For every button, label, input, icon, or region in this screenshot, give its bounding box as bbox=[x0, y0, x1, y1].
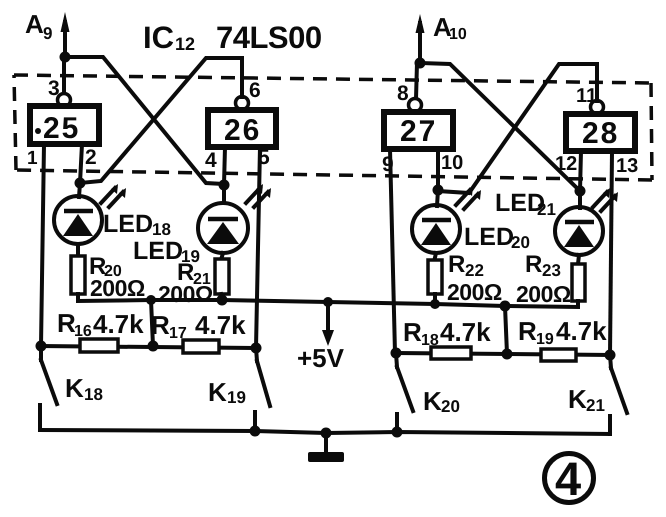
wire cross-couple gate25 out to gate26 input bbox=[65, 57, 224, 184]
node A10 label bbox=[433, 12, 467, 43]
svg-text:4.7k: 4.7k bbox=[93, 309, 144, 339]
LED21 light rays bbox=[593, 188, 618, 211]
K19 label bbox=[208, 377, 246, 407]
wire ground bus bbox=[40, 430, 610, 434]
svg-text:2: 2 bbox=[85, 146, 97, 169]
R18 label bbox=[403, 317, 491, 349]
junction dot K20/ground bus bbox=[392, 427, 403, 438]
wire A10 to gate27 output bbox=[416, 63, 417, 99]
wire cross-couple gate26 out to gate25 input bbox=[80, 58, 242, 183]
LED18 bbox=[54, 183, 102, 257]
R19 label bbox=[518, 316, 607, 348]
wire pin5 gate26 down to K19 node bbox=[256, 147, 260, 348]
junction dot K19/ground bus bbox=[250, 426, 261, 437]
svg-text:200Ω: 200Ω bbox=[90, 275, 145, 301]
junction dot bus/R21 bbox=[217, 295, 228, 306]
resistor R19 4.7k bbox=[541, 349, 576, 361]
junction dot bus/R22 bbox=[430, 299, 440, 309]
svg-text:10: 10 bbox=[441, 152, 463, 174]
junction dot A9 bbox=[60, 52, 71, 63]
wire bus to R18/R19 row bbox=[505, 306, 507, 354]
svg-text:13: 13 bbox=[616, 155, 638, 177]
svg-text:25: 25 bbox=[43, 112, 80, 145]
LED18 label bbox=[103, 210, 171, 239]
LED21 bbox=[555, 191, 603, 264]
svg-text:27: 27 bbox=[400, 115, 437, 148]
wire R21 to bus bbox=[221, 294, 222, 300]
junction dot row/K18 bbox=[36, 341, 47, 352]
gate 25 (IC12 NAND) bbox=[30, 106, 99, 145]
gate 26 output bubble pin 6 bbox=[236, 97, 249, 110]
LED21 label bbox=[495, 189, 556, 219]
R16 label bbox=[57, 308, 144, 340]
svg-text:4.7k: 4.7k bbox=[556, 316, 607, 346]
R20 label bbox=[89, 253, 145, 301]
R23 label bbox=[516, 251, 571, 307]
junction dot pin12/LED21 bbox=[575, 186, 586, 197]
svg-text:12: 12 bbox=[175, 34, 195, 54]
wire bus to R16/R17 row bbox=[151, 300, 153, 346]
wire pin10 gate27 to LED20 node bbox=[436, 149, 440, 190]
gate 27 output bubble pin 8 bbox=[409, 99, 422, 112]
svg-text:R: R bbox=[403, 317, 422, 347]
LED20 label bbox=[464, 223, 530, 252]
svg-text:200Ω: 200Ω bbox=[516, 281, 571, 307]
wire R22 to bus bbox=[433, 294, 437, 304]
svg-text:18: 18 bbox=[84, 385, 103, 404]
node A9 arrow bbox=[61, 12, 70, 57]
wire +5V bus bbox=[78, 294, 578, 307]
resistor R18 4.7k bbox=[431, 347, 471, 359]
svg-text:LED: LED bbox=[133, 237, 183, 265]
LED19 bbox=[198, 185, 248, 260]
wire A9 to gate25 output bbox=[62, 57, 66, 93]
wire pin12 gate28 to LED21 node bbox=[580, 151, 581, 191]
gate 25 output bubble pin 3 bbox=[58, 94, 71, 107]
wire cross-couple gate27 out to gate28 input bbox=[420, 63, 580, 191]
svg-text:R: R bbox=[448, 251, 465, 278]
svg-text:R: R bbox=[518, 316, 537, 346]
junction dot bus/+5V tap bbox=[323, 297, 333, 307]
junction dot A10 bbox=[415, 58, 426, 69]
resistor R23 200ohm bbox=[572, 264, 585, 301]
svg-text:19: 19 bbox=[536, 331, 554, 348]
svg-text:4.7k: 4.7k bbox=[195, 310, 246, 340]
ground bbox=[308, 433, 344, 462]
svg-text:12: 12 bbox=[555, 153, 577, 175]
resistor R20 200ohm bbox=[71, 256, 85, 294]
svg-text:4.7k: 4.7k bbox=[440, 317, 491, 347]
resistor R21 200ohm bbox=[215, 259, 229, 294]
svg-text:6: 6 bbox=[249, 79, 261, 102]
svg-text:21: 21 bbox=[586, 396, 605, 415]
svg-text:21: 21 bbox=[537, 200, 556, 219]
K21 label bbox=[568, 384, 605, 415]
LED20 bbox=[412, 190, 460, 262]
K20 label bbox=[423, 386, 460, 416]
wire pin6 riser bbox=[240, 58, 244, 97]
junction dot pin4/LED19 bbox=[219, 180, 230, 191]
svg-text:K: K bbox=[208, 377, 227, 407]
svg-text:R: R bbox=[151, 310, 170, 340]
LED18 light rays bbox=[101, 184, 126, 207]
svg-text:K: K bbox=[423, 386, 442, 416]
switch K18 bbox=[40, 346, 57, 430]
svg-text:8: 8 bbox=[397, 82, 409, 105]
gate 28 output bubble pin 11 bbox=[591, 101, 604, 114]
svg-text:4: 4 bbox=[555, 452, 581, 505]
wire pin1 gate25 down to K18 node bbox=[41, 144, 44, 346]
svg-text:74LS00: 74LS00 bbox=[216, 20, 322, 55]
svg-text:10: 10 bbox=[449, 26, 467, 43]
LED20 light rays bbox=[456, 186, 481, 209]
junction dot row/K19 bbox=[251, 343, 262, 354]
wire R18/R19 row bbox=[396, 353, 610, 355]
switch K21 bbox=[610, 355, 627, 434]
svg-text:1: 1 bbox=[27, 148, 38, 169]
R17 label bbox=[151, 310, 246, 342]
resistor R17 4.7k bbox=[183, 340, 219, 353]
figure number 4 bbox=[545, 452, 594, 505]
svg-text:23: 23 bbox=[542, 261, 561, 280]
svg-text:A: A bbox=[25, 9, 44, 39]
junction dot row/bus branch bbox=[148, 341, 159, 352]
wire pin11 riser bbox=[595, 64, 599, 101]
wire pin9 gate27 down to K20 node bbox=[390, 149, 395, 353]
svg-text:200Ω: 200Ω bbox=[158, 281, 213, 307]
svg-text:R: R bbox=[525, 251, 542, 278]
R21 label bbox=[158, 259, 213, 307]
junction dot row/K20 bbox=[391, 348, 402, 359]
wire cross-couple gate28 out to gate27 input bbox=[438, 64, 597, 193]
junction dot bus/R17 branch bbox=[146, 295, 156, 305]
svg-text:26: 26 bbox=[224, 114, 261, 147]
wire R16/R17 row bbox=[40, 346, 256, 348]
svg-text:16: 16 bbox=[74, 323, 92, 340]
R22 label bbox=[447, 251, 502, 305]
LED19 label bbox=[133, 237, 200, 266]
node A10 arrow bbox=[416, 14, 425, 63]
svg-text:22: 22 bbox=[465, 261, 484, 280]
wire pin4 gate26 to LED19 node bbox=[224, 147, 225, 185]
LED19 light rays bbox=[246, 184, 271, 207]
IC12 dashed package outline bbox=[14, 75, 652, 180]
switch K19 bbox=[255, 348, 270, 431]
+5V supply arrow bbox=[322, 302, 334, 346]
svg-text:LED: LED bbox=[464, 223, 514, 251]
label IC12 74LS00 bbox=[143, 20, 322, 55]
junction dot pin2/LED18 bbox=[75, 178, 86, 189]
resistor R16 4.7k bbox=[80, 339, 118, 352]
junction dot row/K21 bbox=[605, 350, 616, 361]
junction dot row/bus branch right bbox=[502, 349, 513, 360]
svg-text:11: 11 bbox=[576, 85, 597, 107]
wire pin2 gate25 to LED18 node bbox=[80, 144, 82, 183]
gate 26 (IC12 NAND) bbox=[208, 110, 276, 147]
svg-text:19: 19 bbox=[227, 388, 246, 407]
gate 27 (IC12 NAND) bbox=[384, 112, 453, 149]
svg-text:18: 18 bbox=[421, 332, 439, 349]
switch K20 bbox=[396, 353, 413, 432]
svg-text:K: K bbox=[568, 384, 587, 414]
gate 28 (IC12 NAND) bbox=[566, 114, 635, 151]
svg-text:28: 28 bbox=[582, 117, 619, 150]
K18 label bbox=[65, 373, 103, 404]
svg-text:K: K bbox=[65, 373, 84, 403]
svg-text:17: 17 bbox=[169, 325, 187, 342]
svg-text:20: 20 bbox=[511, 233, 530, 252]
node A9 label bbox=[25, 9, 52, 43]
svg-text:200Ω: 200Ω bbox=[447, 279, 502, 305]
junction dot ground tap bbox=[321, 428, 332, 439]
wire pin13 gate28 down to K21 node bbox=[610, 151, 612, 355]
svg-text:4: 4 bbox=[205, 149, 217, 172]
junction dot pin10/LED20 bbox=[433, 185, 444, 196]
svg-text:+5V: +5V bbox=[297, 343, 345, 373]
resistor R22 200ohm bbox=[428, 260, 442, 294]
svg-text:IC: IC bbox=[143, 20, 174, 55]
svg-text:9: 9 bbox=[43, 24, 52, 43]
junction dot bus/R19 branch bbox=[500, 301, 511, 312]
svg-text:LED: LED bbox=[103, 210, 153, 238]
svg-text:20: 20 bbox=[441, 397, 460, 416]
svg-text:3: 3 bbox=[48, 77, 60, 100]
